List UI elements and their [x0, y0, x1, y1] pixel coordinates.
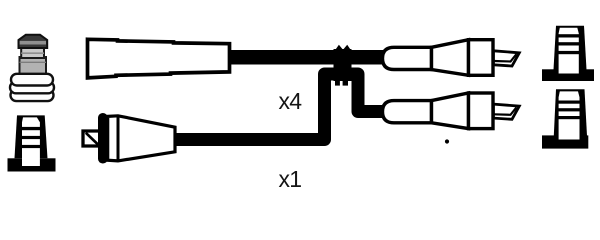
coil boot B2 — [83, 113, 175, 164]
distributor connector D2 — [383, 93, 520, 129]
T1 segment lines — [558, 34, 580, 37]
T2 base — [542, 135, 588, 148]
T1 tower body — [554, 26, 587, 70]
D2 spade terminal — [494, 104, 520, 119]
speck — [445, 139, 449, 143]
spark plug rib 3 — [11, 89, 54, 101]
T3 segment lines — [21, 127, 41, 130]
D2 cylinder — [383, 101, 432, 123]
spark plug terminal nut — [19, 35, 48, 48]
T2 white column — [559, 91, 580, 139]
B2 body cone — [108, 116, 175, 161]
B2 spade tab — [83, 131, 98, 146]
T3 tower body — [15, 115, 48, 158]
spark plug icon — [10, 35, 54, 101]
B2 flange — [98, 113, 108, 164]
spark plug rib 2 — [10, 82, 54, 94]
T3 base — [8, 158, 56, 171]
D1 end box — [469, 40, 494, 76]
D1 cylinder — [383, 47, 432, 69]
T2 segment lines — [558, 101, 581, 104]
T1 base — [542, 69, 594, 81]
spark plug rib 1 — [11, 74, 53, 86]
terminal tower T2 — [542, 89, 588, 148]
T1 white column — [559, 28, 579, 74]
spark plug neck — [21, 48, 44, 59]
plug boot B1 — [88, 39, 230, 78]
spark plug shell — [20, 57, 47, 75]
terminal tower T3 — [8, 115, 56, 171]
svg-text:x1: x1 — [279, 166, 302, 192]
D2 end box — [469, 93, 494, 129]
T2 tower body — [554, 89, 587, 136]
ignition wire W1 (plug wire) — [228, 50, 384, 65]
coil wire W2 — [173, 74, 384, 140]
terminal tower T1 — [542, 26, 594, 81]
D2 cone — [432, 93, 469, 129]
D1 cone — [432, 40, 469, 76]
T3 white column — [22, 117, 40, 166]
D1 spade terminal — [494, 51, 520, 66]
wire clip at crossing — [334, 45, 352, 86]
svg-text:x4: x4 — [279, 88, 303, 114]
distributor connector D1 — [383, 40, 520, 76]
